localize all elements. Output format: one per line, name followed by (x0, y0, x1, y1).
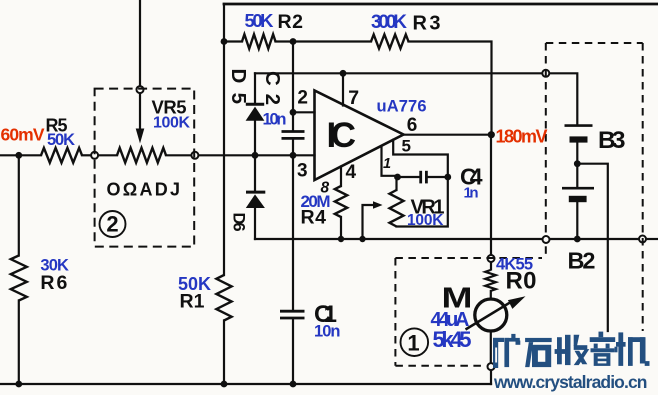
potentiometer VR5 (117, 148, 166, 163)
svg-text:R 0: R 0 (506, 268, 537, 295)
resistor R0 (485, 270, 496, 291)
junction node output 180mV (488, 131, 495, 138)
watermark char ji (616, 342, 626, 347)
wire mid rail to pin 3 (198, 154, 314, 156)
dashed box battery left edge (545, 43, 547, 236)
junction node D5 D6 mid rail (252, 152, 259, 159)
terminal rail left (543, 236, 550, 243)
junction node battery mid (574, 160, 581, 167)
wire pin 7 lead (342, 73, 344, 105)
terminal meter bottom (488, 363, 495, 370)
junction node C4 right (444, 174, 451, 181)
junction node C1 ground (290, 381, 297, 388)
wire C4 leads (398, 176, 420, 178)
svg-text:1: 1 (407, 331, 419, 356)
junction node R1 ground (221, 381, 228, 388)
wire inverting column (pin2/C2/C1) (292, 42, 294, 130)
capacitor C4 (419, 171, 422, 184)
resistor R2 (242, 34, 276, 48)
battery B3 (565, 124, 593, 127)
junction node R4 bottom (338, 236, 344, 242)
svg-text:1: 1 (383, 156, 391, 172)
svg-text:R6: R6 (40, 272, 67, 294)
wire pin 1 lead (382, 147, 398, 176)
dashed box battery top edge (546, 42, 643, 44)
wire negative supply rail (255, 238, 543, 240)
terminal VR5 left (91, 152, 98, 159)
svg-text:R2: R2 (278, 11, 304, 33)
wire D6 branch (254, 155, 256, 192)
junction node pin 2 (290, 109, 297, 116)
svg-text:3: 3 (297, 161, 308, 182)
svg-text:50K: 50K (245, 10, 275, 31)
wire positive supply rail (255, 72, 542, 74)
svg-text:2: 2 (106, 212, 118, 237)
capacitor C2 (282, 130, 305, 133)
wire pin 4 / R4 branch (340, 167, 342, 187)
capacitor C1 (280, 310, 305, 313)
junction node wiper bottom (359, 236, 365, 242)
watermark char shi (525, 338, 552, 342)
svg-text:5k45: 5k45 (433, 327, 472, 352)
dashed box meter bottom edge (395, 365, 485, 367)
terminal rail right (639, 236, 646, 243)
wire R2/R3 feedback rail (224, 40, 242, 42)
diode D5 (246, 103, 264, 106)
wire input rail 60mV (0, 154, 41, 156)
svg-text:6: 6 (407, 115, 418, 136)
wire top rail (224, 3, 658, 6)
svg-text:180mV: 180mV (496, 127, 548, 147)
svg-text:100K: 100K (407, 212, 444, 229)
svg-text:100K: 100K (153, 115, 190, 132)
potentiometer VR1 (390, 190, 404, 227)
wire bottom ground rail (0, 383, 491, 385)
battery B2 (562, 187, 594, 190)
resistor R3 (371, 35, 409, 49)
junction node input R6 (15, 152, 22, 159)
symbol circled 2 (100, 211, 126, 237)
resistor R4 (335, 186, 347, 217)
junction node pin1 VR1 C4 (394, 174, 401, 181)
svg-text:B3: B3 (598, 127, 626, 154)
svg-text:7: 7 (348, 87, 359, 109)
svg-text:300K: 300K (371, 12, 407, 33)
dashed box meter left edge (394, 258, 396, 366)
svg-text:D6: D6 (230, 213, 248, 232)
svg-text:B2: B2 (568, 248, 596, 274)
wire D5 branch (254, 73, 256, 104)
svg-text:10n: 10n (263, 111, 287, 129)
svg-text:2: 2 (297, 88, 308, 109)
wire VR5 top feed (139, 0, 141, 86)
wire battery mid tap (576, 143, 578, 188)
svg-text:uA776: uA776 (377, 98, 427, 116)
symbol circled 1 (401, 328, 429, 356)
resistor R6 (11, 256, 27, 301)
resistor R1 (216, 275, 231, 321)
wire pin 2 lead (293, 111, 315, 113)
junction node R2 right pin2 column (290, 38, 297, 45)
junction node C2 mid rail (290, 152, 297, 159)
svg-text:1n: 1n (464, 185, 479, 202)
meter M movement (475, 299, 507, 331)
watermark char yin (599, 332, 604, 338)
dashed box zero adj (95, 89, 195, 247)
junction node B2 rail (574, 236, 581, 243)
diode D6 (246, 191, 265, 194)
svg-text:60mV: 60mV (1, 125, 45, 145)
svg-text:R4: R4 (301, 207, 327, 229)
svg-text:5: 5 (402, 136, 411, 155)
junction node R2 left (221, 38, 228, 45)
wire R6 branch (18, 155, 20, 255)
svg-text:R3: R3 (413, 13, 441, 35)
terminal supply B3 (542, 70, 549, 77)
terminal meter top (488, 255, 495, 262)
wire pin 5 lead (393, 140, 448, 177)
junction node R6 ground (15, 381, 22, 388)
svg-text:R1: R1 (180, 291, 205, 313)
svg-text:IC: IC (327, 116, 357, 155)
terminal VR5 right (191, 152, 198, 159)
wire VR1 body leads (395, 177, 397, 190)
svg-text:www.crystalradio.cn: www.crystalradio.cn (493, 372, 648, 392)
watermark char kuang (493, 338, 498, 368)
dashed box battery right edge (642, 43, 644, 331)
wire left vertical bus (node A column) (223, 4, 225, 275)
wire output / meter column (404, 134, 492, 136)
watermark char shou (557, 337, 562, 364)
svg-text:50K: 50K (47, 131, 75, 149)
terminal VR5 top (137, 86, 144, 93)
resistor R5 (41, 148, 82, 163)
svg-text:4: 4 (346, 162, 357, 183)
svg-text:10n: 10n (314, 323, 341, 341)
junction node pin 7 supply (340, 70, 347, 77)
dashed box meter top edge (395, 257, 542, 259)
wire B2 negative lead (576, 203, 578, 240)
dashed box meter corner tick (545, 244, 547, 254)
wire VR1 wiper arm (363, 205, 375, 239)
op-amp U1 triangle (315, 91, 404, 181)
